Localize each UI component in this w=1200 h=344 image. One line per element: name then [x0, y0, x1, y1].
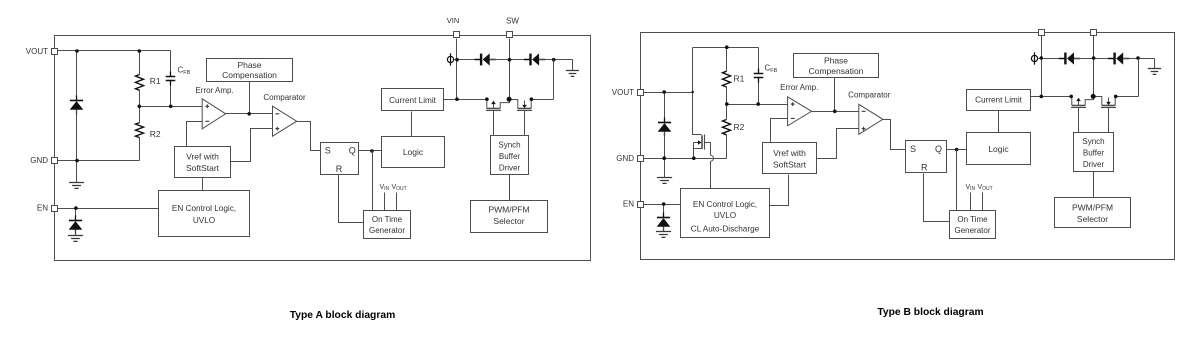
- node drain Q2 junction: [530, 97, 534, 101]
- svg-text:Buffer: Buffer: [1083, 148, 1105, 157]
- node SW-MOSFET junction: [507, 97, 512, 102]
- svg-text:VIN: VIN: [380, 184, 390, 192]
- wire Vref to comparator plus: [231, 129, 273, 162]
- svg-text:Logic: Logic: [403, 147, 424, 157]
- node VOUT-diode junction B: [662, 90, 666, 94]
- svg-text:Error Amp.: Error Amp.: [195, 86, 233, 95]
- wire VOUT sense stub B: [982, 193, 984, 211]
- svg-text:Comparator: Comparator: [263, 93, 306, 102]
- block Logic B: [967, 133, 1031, 165]
- wire diode row 1 B: [1042, 58, 1065, 60]
- transistor Q5 low-side B: [1094, 97, 1117, 133]
- svg-text:SoftStart: SoftStart: [773, 160, 807, 170]
- svg-text:Vref with: Vref with: [773, 148, 806, 158]
- port SW B: [1091, 30, 1097, 36]
- wire Q to on-time generator B: [956, 150, 958, 211]
- svg-text:VOUT: VOUT: [978, 184, 993, 192]
- wire top rail B: [693, 47, 759, 49]
- pin + of comparator B: [862, 127, 866, 131]
- ground GND net: [69, 161, 84, 189]
- svg-text:R1: R1: [150, 76, 161, 86]
- resistor R2: [136, 107, 144, 161]
- wire to phase compensation B: [834, 78, 836, 112]
- svg-text:Comparator: Comparator: [848, 91, 891, 100]
- svg-text:Buffer: Buffer: [499, 152, 521, 161]
- svg-text:Phase: Phase: [824, 56, 848, 66]
- pin - of error amp: [205, 120, 209, 122]
- wire VIN line B: [1041, 36, 1043, 97]
- svg-text:UVLO: UVLO: [714, 211, 736, 220]
- wire Vref to comparator plus B: [817, 129, 859, 159]
- svg-text:R: R: [336, 164, 343, 174]
- block On Time Generator: [364, 211, 411, 239]
- wire current limit to VIN rail: [444, 99, 457, 101]
- port VIN: [454, 32, 460, 38]
- port SW: [507, 32, 513, 38]
- svg-text:Error Amp.: Error Amp.: [780, 83, 818, 92]
- svg-text:Compensation: Compensation: [222, 70, 277, 80]
- wire diode branch: [76, 51, 78, 101]
- block Vref with SoftStart: [175, 147, 231, 178]
- node VIN-diode junction B2: [1040, 56, 1044, 60]
- outer boundary Type B: [641, 33, 1175, 260]
- svg-text:R1: R1: [734, 74, 745, 84]
- node VOUT-diode junction: [75, 49, 79, 53]
- svg-text:CFB: CFB: [765, 64, 778, 74]
- node source Q4 junction B: [1069, 95, 1073, 99]
- op-amp U2 comparator: [273, 106, 297, 136]
- capacitor CFB B: [754, 48, 764, 105]
- wire diode to MOSFET drop B: [1138, 59, 1140, 97]
- svg-text:Current Limit: Current Limit: [389, 96, 437, 105]
- svg-text:R2: R2: [150, 129, 161, 139]
- pin - of comparator: [275, 113, 279, 115]
- svg-text:Synch: Synch: [498, 141, 520, 150]
- wire error amp output B: [812, 111, 859, 113]
- svg-text:Logic: Logic: [988, 144, 1009, 154]
- wire VIN line: [456, 39, 458, 100]
- node top rail R1 junction B: [725, 45, 729, 49]
- wire EN rail B: [643, 204, 681, 206]
- block Phase Compensation: [207, 59, 293, 82]
- resistor R1 B: [723, 48, 731, 105]
- port VOUT: [52, 49, 58, 55]
- svg-text:Type B block diagram: Type B block diagram: [877, 307, 983, 318]
- node source Q1 junction: [485, 97, 489, 101]
- wire VOUT rail B: [643, 92, 693, 94]
- block Synch Buffer Driver B: [1074, 133, 1114, 172]
- wire current limit to VIN rail B: [1031, 96, 1042, 98]
- wire R input: [339, 175, 364, 223]
- svg-text:Driver: Driver: [1083, 160, 1105, 169]
- wire phi stub B: [1039, 58, 1042, 60]
- wire diode to MOSFET drop: [553, 60, 555, 100]
- ground GND net B: [657, 159, 672, 184]
- wire GND rail: [57, 160, 140, 162]
- op-amp U1 error amplifier: [202, 99, 225, 129]
- wire error amp output: [226, 113, 273, 115]
- wire diode row 3 B: [1124, 58, 1155, 60]
- wire diode row 2: [490, 59, 530, 61]
- wire comparator output to S B: [883, 120, 906, 150]
- wire to phase compensation: [249, 82, 251, 114]
- port GND B: [638, 156, 644, 162]
- block Logic: [382, 137, 445, 168]
- svg-text:EN Control Logic,: EN Control Logic,: [172, 204, 236, 213]
- svg-text:On Time: On Time: [957, 215, 988, 224]
- node VIN-rail junction: [455, 97, 459, 101]
- wire VOUT sense stub: [396, 193, 398, 211]
- wire EN rail: [57, 208, 159, 210]
- diode D8 low-side body B: [1108, 52, 1129, 64]
- wire MOSFET rail left: [457, 99, 487, 101]
- wire driver to selector B: [1093, 172, 1095, 198]
- pin + of error amp B: [791, 102, 795, 106]
- svg-text:S: S: [325, 145, 331, 155]
- diode D7 high-side body B: [1059, 52, 1080, 64]
- transistor Q4 high-side B: [1071, 97, 1094, 133]
- flip-flop SR latch B: [906, 141, 947, 173]
- port EN B: [638, 202, 644, 208]
- ground power PGND: [566, 60, 579, 77]
- capacitor CFB: [166, 51, 176, 107]
- svg-text:VOUT: VOUT: [612, 88, 634, 97]
- svg-text:Q: Q: [935, 144, 942, 154]
- svg-text:PWM/PFM: PWM/PFM: [1072, 203, 1113, 213]
- block Current Limit B: [967, 90, 1031, 111]
- svg-text:SoftStart: SoftStart: [186, 163, 220, 173]
- transistor Q3 CL auto-discharge: [694, 134, 714, 188]
- port EN: [52, 206, 58, 212]
- node FB-CFB junction: [169, 105, 173, 109]
- svg-text:Current Limit: Current Limit: [975, 96, 1023, 105]
- svg-text:Phase: Phase: [237, 60, 261, 70]
- wire VOUT diode branch B: [664, 93, 666, 118]
- svg-text:Selector: Selector: [1077, 214, 1108, 224]
- wire Q to on-time generator: [372, 151, 374, 211]
- op-amp U4 comparator B: [859, 104, 883, 134]
- svg-text:CL Auto-Discharge: CL Auto-Discharge: [691, 225, 760, 234]
- svg-text:VIN: VIN: [447, 16, 460, 25]
- node SW-diode junction B: [1092, 56, 1096, 60]
- wire EN control to Vref B: [770, 175, 789, 206]
- svg-text:EN Control Logic,: EN Control Logic,: [693, 200, 757, 209]
- wire comparator output to S: [297, 122, 321, 151]
- wire Q output B: [947, 149, 967, 151]
- block PWM/PFM Selector: [471, 201, 548, 233]
- node error amp output junction: [247, 112, 251, 116]
- wire SW line: [509, 39, 511, 100]
- svg-text:VIN: VIN: [966, 184, 976, 192]
- node error amp output junction B: [833, 110, 837, 114]
- outer boundary Type A: [55, 36, 591, 261]
- node diode-ground junction: [552, 58, 556, 62]
- wire FB node B: [727, 104, 788, 106]
- svg-text:EN: EN: [623, 200, 634, 209]
- svg-text:GND: GND: [616, 154, 634, 163]
- wire error amp minus to Vref B: [771, 119, 788, 143]
- wire current limit to logic B: [998, 111, 1000, 133]
- node Q3 source junction: [692, 156, 696, 160]
- svg-text:EN: EN: [37, 204, 48, 213]
- svg-text:CFB: CFB: [178, 66, 191, 76]
- svg-text:UVLO: UVLO: [193, 216, 215, 225]
- node SW-diode junction: [508, 58, 512, 62]
- resistor R1: [136, 51, 144, 107]
- wire diode row 1: [457, 59, 481, 61]
- diode D1 VOUT clamp: [70, 96, 84, 115]
- ground power PGND B: [1148, 59, 1161, 75]
- node FB-CFB junction B: [756, 102, 760, 106]
- svg-text:Q: Q: [349, 145, 356, 155]
- node Q junction B: [955, 148, 959, 152]
- diode D4 low-side body: [524, 53, 545, 65]
- svg-text:Type A block diagram: Type A block diagram: [290, 310, 395, 321]
- wire GND rail B: [643, 158, 727, 160]
- node GND-diode junction B: [662, 156, 666, 160]
- transistor Q1 high-side: [486, 100, 510, 136]
- svg-text:Synch: Synch: [1082, 137, 1104, 146]
- node phase terminal: [447, 53, 453, 65]
- node EN-diode junction B: [662, 202, 666, 206]
- transistor Q2 low-side: [510, 100, 533, 136]
- node VIN-diode junction: [455, 58, 459, 62]
- wire diode to GND: [76, 110, 78, 161]
- wire R input B: [924, 174, 950, 222]
- resistor R2 B: [723, 105, 731, 159]
- port VIN B: [1039, 30, 1045, 36]
- node GND-diode junction: [75, 159, 79, 163]
- diode D5 VOUT clamp B: [658, 118, 672, 137]
- wire current limit to logic: [411, 112, 413, 137]
- block Synch Buffer Driver: [491, 136, 529, 175]
- svg-text:S: S: [910, 144, 916, 154]
- block EN Control Logic UVLO: [159, 191, 250, 237]
- svg-text:Driver: Driver: [499, 164, 521, 173]
- node VOUT-riser junction B: [692, 91, 694, 93]
- pin - of comparator B: [862, 110, 866, 112]
- wire MOSFET rail right B: [1116, 96, 1139, 98]
- svg-text:R: R: [921, 163, 928, 173]
- svg-text:Compensation: Compensation: [809, 66, 864, 76]
- ground EN clamp: [68, 231, 83, 242]
- wire EN diode branch B: [663, 205, 665, 217]
- block Current Limit: [382, 89, 444, 111]
- wire diode row 3: [540, 59, 573, 61]
- node VOUT-R1 junction: [138, 49, 142, 53]
- svg-text:On Time: On Time: [372, 215, 403, 224]
- node drain Q5 junction B: [1114, 95, 1118, 99]
- node EN-diode junction: [74, 206, 78, 210]
- node phase terminal B: [1031, 52, 1037, 64]
- svg-text:Generator: Generator: [954, 226, 990, 235]
- pin + of error amp: [205, 104, 209, 108]
- diode D6 EN clamp B: [657, 213, 671, 232]
- pin - of error amp B: [791, 117, 795, 119]
- node Q junction: [370, 149, 374, 153]
- svg-text:Vref with: Vref with: [186, 151, 219, 161]
- wire FB node: [140, 106, 203, 108]
- wire MOSFET rail left B: [1042, 96, 1072, 98]
- wire SW line B: [1093, 36, 1095, 97]
- block Vref with SoftStart B: [763, 143, 817, 174]
- wire driver to selector: [509, 175, 511, 201]
- svg-text:R2: R2: [734, 122, 745, 132]
- port GND: [52, 158, 58, 164]
- wire VIN sense stub: [384, 193, 386, 211]
- svg-text:Selector: Selector: [493, 216, 524, 226]
- flip-flop SR latch: [321, 143, 359, 175]
- port VOUT B: [638, 90, 644, 96]
- block On Time Generator B: [950, 211, 996, 239]
- node VIN-rail junction B: [1040, 95, 1044, 99]
- svg-text:Generator: Generator: [369, 226, 405, 235]
- node FB-R1 junction: [138, 105, 142, 109]
- node diode-ground junction B: [1136, 56, 1140, 60]
- wire VOUT riser and CL drain: [693, 48, 702, 135]
- wire EN diode branch: [75, 209, 77, 221]
- block Phase Compensation B: [794, 54, 879, 78]
- svg-text:SW: SW: [506, 17, 519, 26]
- wire phi stub: [454, 59, 457, 61]
- block EN Control Logic B: [681, 189, 770, 238]
- diode D3 high-side body: [475, 53, 496, 65]
- block PWM/PFM Selector B: [1055, 198, 1131, 228]
- node FB-R1 junction B: [725, 102, 729, 106]
- svg-text:VOUT: VOUT: [26, 47, 48, 56]
- pin + of comparator: [275, 127, 279, 131]
- wire diode row 2 B: [1075, 58, 1114, 60]
- diode D2 EN clamp: [69, 216, 83, 235]
- ground EN clamp B: [656, 227, 671, 238]
- svg-text:VOUT: VOUT: [392, 184, 407, 192]
- wire error amp minus to Vref: [187, 122, 203, 147]
- svg-text:PWM/PFM: PWM/PFM: [488, 205, 529, 215]
- wire diode to GND B: [664, 132, 666, 159]
- wire MOSFET rail right: [532, 99, 554, 101]
- wire VOUT rail: [57, 50, 171, 52]
- svg-text:GND: GND: [30, 156, 48, 165]
- node SW-MOSFET junction B: [1091, 94, 1096, 99]
- wire Vref to EN control: [202, 178, 204, 191]
- op-amp U3 error amplifier B: [788, 97, 812, 126]
- wire VIN sense stub B: [970, 193, 972, 211]
- wire Q output: [359, 150, 382, 152]
